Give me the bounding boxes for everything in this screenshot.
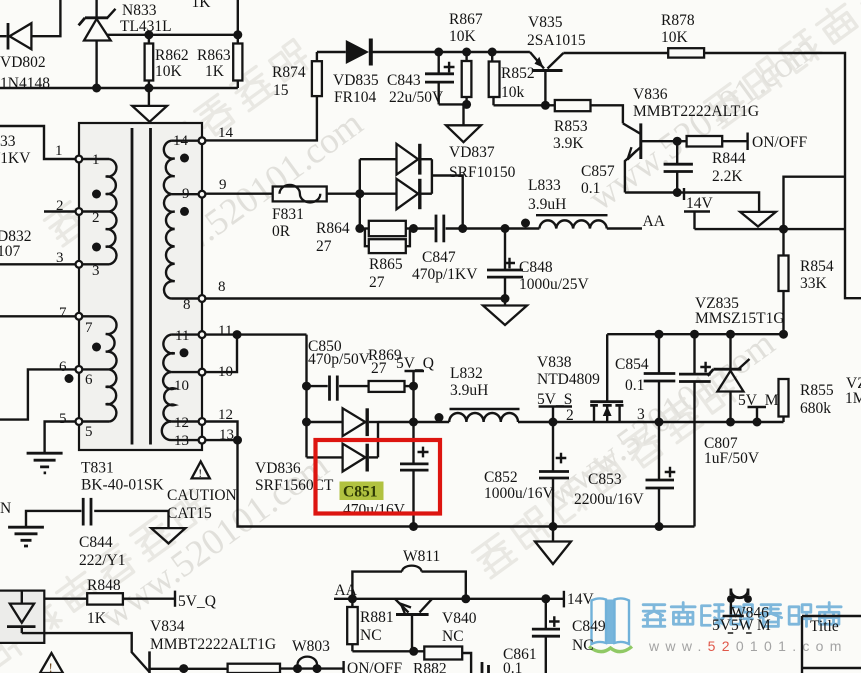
svg-text:10: 10 (174, 378, 189, 394)
pin 6 terminal (76, 366, 83, 373)
svg-text:11: 11 (175, 328, 189, 344)
resistor R863 (233, 35, 242, 88)
pin labels right inside (173, 133, 191, 449)
node VZ835 anode (726, 418, 735, 427)
wire R864 to C847 (414, 227, 435, 229)
svg-text:5V_Q: 5V_Q (178, 593, 216, 610)
polarity dot winding 11-10 (180, 348, 189, 357)
wire 14V rail to right rail (695, 228, 846, 230)
pin labels left outside (55, 143, 67, 427)
transformer T831 body (79, 123, 202, 450)
winding 10-12 (163, 372, 199, 421)
capacitor C861 plates cut (482, 662, 489, 673)
svg-text:NC: NC (442, 628, 464, 645)
node C854 top (655, 330, 664, 339)
svg-text:F831: F831 (272, 206, 304, 223)
net label 5V_S (537, 391, 572, 422)
svg-text:3.9uH: 3.9uH (528, 196, 566, 213)
svg-text:1M: 1M (845, 390, 861, 407)
svg-text:/1KV: /1KV (0, 150, 31, 167)
resistor R844 (677, 136, 747, 147)
resistor R854 (779, 256, 789, 335)
svg-text:NC: NC (360, 627, 382, 644)
wire R878 to right rail (704, 53, 861, 298)
svg-text:1K: 1K (205, 63, 225, 80)
svg-text:22u/50V: 22u/50V (389, 89, 444, 106)
svg-text:ON/OFF: ON/OFF (347, 660, 403, 673)
diagonal watermark chinese mid (472, 371, 740, 577)
label C851 highlighted (340, 482, 384, 501)
wire R852 bottom to V835 base node (494, 104, 546, 106)
inductor L833 (536, 215, 608, 228)
node C848 bottom (501, 294, 510, 303)
jumper W846 (727, 589, 752, 615)
svg-text:Title: Title (810, 618, 839, 635)
svg-text:W803: W803 (292, 638, 330, 655)
svg-text:R862: R862 (155, 47, 189, 64)
winding 9-8 (164, 194, 199, 298)
capacitor C843 (425, 52, 455, 104)
svg-text:C847: C847 (422, 249, 456, 266)
transistor V835 (530, 52, 564, 105)
diode VD836 upper (343, 408, 378, 436)
pin 8 terminal (199, 295, 206, 302)
svg-text:R878: R878 (661, 12, 695, 29)
polarity dot winding 6-5 (65, 374, 74, 383)
svg-text:13: 13 (174, 433, 189, 449)
wire 5V_M rail (659, 421, 784, 423)
capacitor C847 (436, 215, 444, 243)
wire pin10 to pin11 rail (205, 335, 237, 373)
node 5V rail C851 (409, 418, 418, 427)
svg-text:V838: V838 (537, 354, 572, 371)
svg-text:11: 11 (218, 323, 232, 339)
svg-text:3: 3 (92, 263, 100, 279)
svg-text:R853: R853 (554, 118, 588, 135)
pin 5 terminal (76, 418, 83, 425)
wire pin1 to C833 stub (0, 126, 76, 159)
svg-text:VD835: VD835 (333, 72, 379, 89)
node R864 right (409, 224, 418, 233)
resistor R881 (347, 599, 358, 652)
svg-text:107: 107 (0, 243, 21, 260)
node R882 left (409, 647, 418, 656)
wire pin5 to earth ground (45, 422, 76, 454)
svg-text:CAT15: CAT15 (167, 505, 212, 522)
resistor bottom cut (228, 664, 280, 673)
resistor R853 (545, 100, 590, 111)
node V836 base (673, 137, 682, 146)
wire pin14 to R874 (205, 96, 317, 140)
pin labels left inside (85, 152, 100, 440)
svg-text:VD802: VD802 (0, 54, 46, 71)
svg-text:680k: 680k (800, 400, 831, 417)
resistor R852 (489, 52, 500, 105)
svg-text:8: 8 (218, 279, 226, 295)
pin 11 terminal (199, 331, 206, 338)
ground below C848 (483, 299, 527, 326)
svg-text:R864: R864 (316, 220, 350, 237)
wire R853 to V836 collector (591, 105, 623, 123)
capacitor C852 (539, 422, 569, 527)
winding 14-9 (164, 141, 199, 195)
resistor R878 (668, 48, 704, 57)
diagonal watermark chinese top right (704, 0, 861, 128)
svg-text:3.9K: 3.9K (553, 135, 584, 152)
wire VD837 anode leg (360, 159, 397, 228)
svg-text:R855: R855 (800, 382, 834, 399)
svg-text:1: 1 (92, 152, 100, 168)
wire C848 node to L833 (505, 227, 539, 229)
svg-text:NTD4809: NTD4809 (537, 371, 600, 388)
capacitor C857 (664, 141, 693, 192)
transistor V840 (395, 599, 432, 652)
svg-text:10K: 10K (449, 28, 477, 45)
wire AA rail (334, 598, 564, 600)
svg-text:0R: 0R (272, 223, 291, 240)
svg-text:2: 2 (92, 210, 100, 226)
zener VZ835 (708, 334, 750, 422)
svg-text:14V: 14V (686, 195, 714, 212)
wire TL431 ref to R862 R863 tops (107, 34, 238, 36)
node C852 bottom (549, 522, 558, 531)
pin 1 terminal (76, 156, 83, 163)
ground below 0V rail (535, 527, 571, 565)
node 14V rail R854 (779, 225, 788, 234)
diode VD837 upper (397, 144, 432, 175)
svg-text:L832: L832 (450, 365, 483, 382)
svg-text:!: ! (198, 466, 202, 480)
svg-text:1uF/50V: 1uF/50V (704, 450, 760, 467)
earth ground pin5 (27, 453, 63, 473)
shunt regulator N833 TL431 (79, 0, 116, 88)
node C853 bottom (655, 522, 664, 531)
polarity dot winding 7-6 (92, 343, 101, 352)
diode VD836 lower (343, 444, 378, 472)
label 5V5W_M (712, 617, 771, 634)
svg-text:R852: R852 (501, 65, 535, 82)
earth ground C844 left (8, 527, 44, 546)
node VD836 anode top (302, 418, 311, 427)
wire R863 top to top edge (237, 0, 239, 35)
node R867 top (462, 48, 471, 57)
svg-text:T831: T831 (81, 460, 114, 477)
svg-text:5: 5 (85, 424, 93, 440)
inductor L832 (449, 409, 519, 422)
node C843 top (434, 48, 443, 57)
node C807 top (690, 330, 699, 339)
terminal tick 14V bottom (563, 591, 565, 608)
wire VD835 to V835 emitter (373, 51, 530, 53)
transistor V834 (22, 633, 150, 673)
caution triangle (192, 461, 210, 480)
svg-text:8: 8 (183, 297, 191, 313)
svg-text:3.9uH: 3.9uH (450, 382, 488, 399)
winding 7-6 (82, 316, 117, 369)
node C850 left (302, 382, 311, 391)
capacitor C848 (487, 229, 523, 299)
svg-text:7: 7 (85, 320, 93, 336)
resistor R865 (365, 229, 410, 254)
winding 11-10 (163, 335, 198, 373)
pin 2 terminal (76, 208, 83, 215)
svg-text:SRF10150: SRF10150 (449, 164, 516, 181)
wire R881 V840 bottoms (352, 650, 424, 652)
net label 5V_Q (396, 355, 434, 386)
resistor R862 (145, 35, 154, 88)
svg-text:2.2K: 2.2K (712, 168, 743, 185)
pin 9 terminal (199, 191, 206, 198)
svg-text:6: 6 (85, 372, 93, 388)
wire resistor to ON/OFF tick (280, 667, 344, 669)
resistor R848 (87, 593, 175, 604)
svg-text:27: 27 (369, 274, 385, 291)
polarity dot winding 1-2 (92, 190, 101, 199)
svg-text:SRF1560CT: SRF1560CT (255, 477, 334, 494)
transistor V836 (623, 123, 677, 192)
transformer core line 1 (131, 128, 134, 445)
svg-text:BK-40-01SK: BK-40-01SK (81, 477, 164, 494)
node V834 emitter rail (179, 664, 188, 673)
svg-text:10k: 10k (501, 84, 525, 101)
svg-text:470p/50V: 470p/50V (308, 351, 371, 368)
svg-text:33: 33 (0, 133, 16, 150)
wire pin2 stub (44, 210, 76, 212)
svg-text:5V_Q: 5V_Q (396, 355, 434, 372)
pin 14 terminal (199, 137, 206, 144)
svg-text:6: 6 (59, 359, 67, 375)
diode VD835 (346, 39, 371, 66)
diagonal watermark chinese bottom left (0, 489, 212, 673)
svg-text:R854: R854 (800, 258, 834, 275)
node 5V_M tick (753, 418, 762, 427)
svg-text:1K: 1K (192, 0, 212, 11)
capacitor C844 (83, 498, 91, 526)
wire C843 R867 bottoms (439, 103, 467, 105)
wire pin8 rail (205, 297, 505, 299)
resistor R855 (779, 379, 789, 422)
wire 5V_S rail under mosfet (553, 421, 659, 423)
capacitor C849 (532, 599, 560, 673)
capacitor C807 (679, 334, 711, 526)
svg-text:C851: C851 (343, 484, 377, 501)
svg-text:www.520101.com: www.520101.com (648, 638, 848, 654)
node pin10 join (233, 330, 242, 339)
svg-text:ON/OFF: ON/OFF (752, 134, 808, 151)
jumper W803 (293, 657, 322, 673)
warning triangle bottom (40, 653, 63, 673)
node C851 bottom (409, 522, 418, 531)
wire L833 to AA (607, 227, 642, 229)
winding 1-2 (82, 159, 116, 212)
svg-text:9: 9 (182, 186, 190, 202)
wire drain rail y334 (607, 333, 783, 335)
svg-text:12: 12 (174, 415, 189, 431)
svg-text:VD836: VD836 (255, 460, 301, 477)
svg-text:MMSZ15T1G: MMSZ15T1G (695, 310, 785, 327)
wire pin11 vertical (305, 335, 307, 458)
wire C844 row (26, 511, 169, 528)
svg-text:N833: N833 (122, 2, 157, 19)
label W846 (723, 605, 770, 622)
node pin13 join (233, 436, 242, 445)
wire VD837 cathodes join (432, 159, 463, 228)
wire C847 to C848 node (446, 227, 505, 229)
svg-text:V840: V840 (442, 610, 477, 627)
wire VD836 anode stubs (307, 422, 343, 457)
wire VD802 left lead (0, 35, 7, 37)
svg-text:R874: R874 (272, 64, 306, 81)
svg-text:27: 27 (316, 238, 332, 255)
diode VD837 lower (397, 179, 432, 209)
svg-text:5: 5 (59, 411, 67, 427)
svg-text:5V5W M: 5V5W M (712, 617, 771, 634)
svg-text:3: 3 (637, 406, 645, 423)
svg-text:R848: R848 (87, 577, 121, 594)
wire VD836 cathode join (378, 422, 414, 457)
polarity dot winding 9-8 (180, 207, 189, 216)
winding 12-13 (162, 422, 199, 441)
capacitor C853 (646, 422, 676, 527)
diode VD802 (8, 23, 31, 50)
terminal tick ON/OFF (746, 133, 748, 151)
svg-text:C849: C849 (572, 618, 606, 635)
wire pin9 to fuse (205, 192, 272, 194)
svg-text:1N4148: 1N4148 (0, 75, 50, 92)
svg-text:10K: 10K (661, 29, 689, 46)
node 5V_Q junction (409, 382, 418, 391)
svg-text:VD837: VD837 (449, 144, 495, 161)
wire pin12 jog (205, 422, 237, 441)
svg-text:CAUTION: CAUTION (167, 487, 237, 504)
wire 5V rail to L832 (414, 421, 450, 423)
net label 14V top (684, 188, 714, 229)
red highlight box around C851 (316, 440, 441, 514)
svg-text:R881: R881 (360, 609, 394, 626)
capacitor C854 (644, 334, 676, 422)
fuse F831 (273, 185, 327, 203)
svg-text:470u/16V: 470u/16V (343, 502, 406, 519)
wire V835 collector to R878 (563, 52, 668, 54)
svg-text:14: 14 (218, 125, 234, 141)
terminal tick ON/OFF bottom (342, 661, 344, 673)
wire pin7 to left edge (0, 315, 76, 317)
net label 5V_M (738, 392, 779, 422)
svg-text:R863: R863 (197, 47, 231, 64)
svg-text:C853: C853 (588, 471, 622, 488)
node C853 top (655, 418, 664, 427)
node V835 base (541, 101, 550, 110)
svg-text:C852: C852 (484, 469, 518, 486)
svg-text:14: 14 (173, 133, 189, 149)
wire VD802 anode up (31, 0, 60, 36)
svg-text:222/Y1: 222/Y1 (79, 552, 126, 569)
pin 12 terminal (199, 418, 206, 425)
svg-text:N: N (0, 500, 11, 517)
svg-text:7: 7 (59, 305, 67, 321)
ground chassis right of C844 (151, 528, 185, 543)
svg-text:9: 9 (219, 177, 227, 193)
svg-text:1: 1 (55, 143, 63, 159)
svg-text:V835: V835 (528, 14, 563, 31)
node R862 top (144, 30, 153, 39)
svg-text:MMBT2222ALT1G: MMBT2222ALT1G (150, 636, 276, 653)
node R864 left (355, 224, 364, 233)
svg-text:FR104: FR104 (334, 89, 376, 106)
capacitor C850 (307, 376, 369, 401)
polarity dot winding 14-9 (180, 154, 189, 163)
ground below R862 (132, 88, 167, 122)
svg-text:15: 15 (273, 82, 289, 99)
svg-text:0.1: 0.1 (581, 180, 600, 197)
svg-text:V834: V834 (150, 618, 185, 635)
node C849 top (541, 594, 550, 603)
node VD837 anode (355, 189, 364, 198)
svg-text:W811: W811 (403, 548, 440, 565)
svg-text:1K: 1K (87, 610, 107, 627)
svg-text:27: 27 (371, 360, 387, 377)
svg-text:2SA1015: 2SA1015 (527, 32, 586, 49)
blue watermark chinese characters (643, 603, 841, 627)
svg-text:C854: C854 (615, 356, 649, 373)
winding 2-3 (82, 212, 116, 265)
node R863 top (233, 30, 242, 39)
node C857 bottom (673, 188, 682, 197)
wire pin11 rail (205, 333, 306, 335)
title block (802, 616, 861, 673)
node W811 right (461, 594, 470, 603)
svg-text:AA: AA (643, 213, 666, 230)
capacitor C851 (400, 386, 429, 526)
node VZ835 top (726, 330, 735, 339)
resistor R867 (462, 52, 472, 104)
wire ground rail y88 (0, 87, 238, 89)
svg-text:V836: V836 (633, 86, 668, 103)
resistor R864 (360, 221, 414, 236)
svg-text:L833: L833 (528, 177, 561, 194)
winding 6-5 (82, 369, 116, 421)
node W811 left (348, 594, 357, 603)
svg-text:0.1: 0.1 (503, 660, 522, 673)
svg-text:33K: 33K (800, 275, 828, 292)
wire L832 to C852 node (518, 421, 553, 423)
node R862 bottom (144, 84, 153, 93)
optocoupler box (0, 591, 44, 643)
svg-text:C848: C848 (519, 259, 553, 276)
ground below 14V rail (740, 212, 776, 227)
svg-text:R844: R844 (712, 150, 746, 167)
node N833 anode (92, 84, 101, 93)
node C852 top (549, 418, 558, 427)
svg-text:10K: 10K (155, 63, 183, 80)
svg-text:C843: C843 (387, 72, 421, 89)
wire pin6 to left edge (0, 369, 76, 419)
svg-text:C844: C844 (79, 534, 113, 551)
mosfet V838 (590, 334, 623, 422)
node C848 top (501, 224, 510, 233)
svg-text:C857: C857 (581, 163, 615, 180)
wire R874 top to VD835 (317, 51, 346, 53)
wire right rail branch to R854 (784, 177, 846, 256)
diagonal watermark chinese left edge (44, 39, 312, 245)
pin 3 terminal (76, 261, 83, 268)
svg-text:14V: 14V (567, 591, 595, 608)
terminal tick 5V_Q bottom (174, 591, 176, 607)
svg-text:0.1: 0.1 (625, 377, 644, 394)
node R852 top (488, 48, 497, 57)
svg-text:470p/1KV: 470p/1KV (412, 266, 478, 283)
svg-text:1000u/16V: 1000u/16V (484, 485, 555, 502)
